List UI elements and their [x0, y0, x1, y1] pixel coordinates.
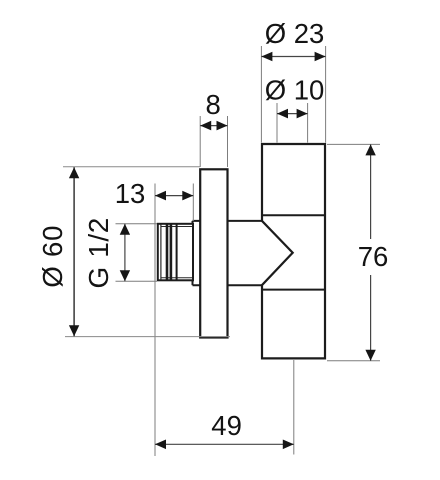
dimension Ø23: dimension line	[261, 56, 325, 58]
tail shoulder line	[176, 224, 178, 281]
dimension Ø23: extension lines	[261, 46, 325, 143]
body upper joint line	[262, 214, 325, 216]
wall flange	[200, 169, 227, 337]
svg-text:8: 8	[206, 89, 221, 120]
dimension 13: dimension line	[155, 195, 193, 197]
svg-text:49: 49	[211, 410, 242, 441]
thread root lines	[162, 226, 193, 228]
body lower joint line	[262, 289, 325, 291]
svg-text:Ø 60: Ø 60	[37, 225, 68, 288]
svg-text:13: 13	[115, 178, 146, 209]
dimension 13: extension line left (shared with 49)	[154, 184, 156, 457]
dimension 8: extension lines	[200, 116, 227, 167]
dimension Ø23: arrowheads	[261, 52, 325, 62]
svg-text:G 1/2: G 1/2	[83, 217, 114, 288]
dimension 76: dimension line (broken for label)	[370, 144, 372, 239]
svg-text:Ø 23: Ø 23	[265, 18, 325, 49]
dimension G 1/2: dimension line	[124, 224, 126, 281]
dimension Ø10: arrowheads	[277, 109, 308, 119]
thread end chamfer line	[160, 224, 162, 280]
dimension Ø60: dimension line	[73, 167, 75, 336]
thread runout line 1	[166, 224, 169, 281]
dimension 8: arrowheads	[200, 121, 227, 131]
threaded tail piece G1/2	[158, 224, 193, 280]
thread runout line 2	[170, 224, 173, 281]
valve body outline with cone	[262, 144, 325, 358]
collar / cap nut behind flange	[193, 221, 263, 285]
svg-text:76: 76	[358, 241, 389, 272]
dimension 49: dimension line	[155, 443, 294, 445]
dimension 13: arrowheads	[155, 191, 193, 201]
svg-text:Ø 10: Ø 10	[265, 75, 325, 106]
dimension Ø10: dimension line	[277, 113, 308, 115]
dimension G 1/2: extension lines	[116, 224, 158, 281]
dimension Ø60: arrowheads	[69, 167, 79, 336]
dimension 8: dimension line	[200, 125, 227, 127]
dimension 76: arrowheads	[365, 144, 375, 360]
dimension Ø60: extension lines	[63, 167, 230, 337]
dimension 49: extension line right (body centre)	[293, 360, 295, 455]
dimension 13: extension line right	[192, 184, 194, 222]
dimension 76: extension lines	[327, 144, 380, 360]
dimension 49: arrowheads	[155, 440, 294, 450]
dimension G 1/2: arrowheads	[120, 224, 130, 281]
dimension Ø10: extension lines	[277, 103, 308, 143]
